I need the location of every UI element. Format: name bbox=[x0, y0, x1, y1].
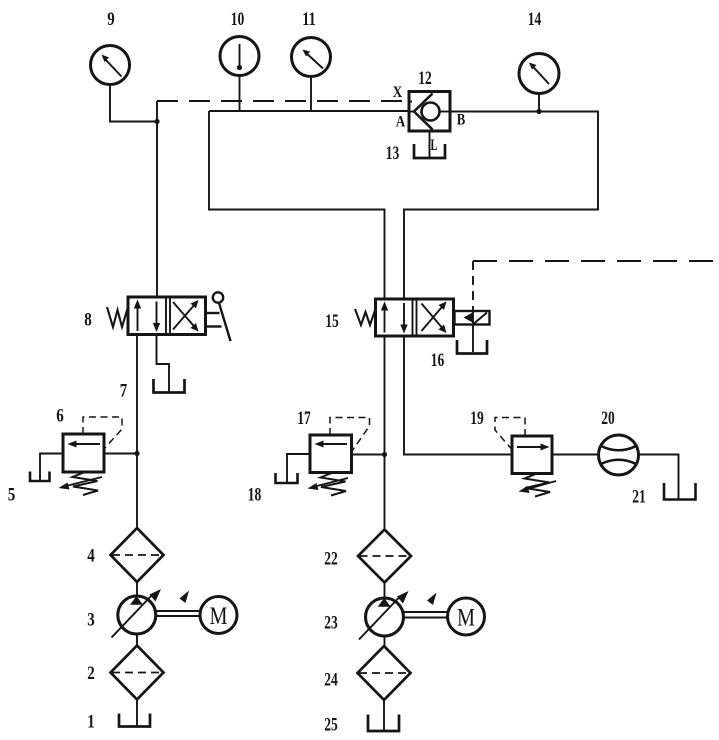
wire valve 15 P line down bbox=[384, 336, 386, 530]
wire solenoid drain bbox=[472, 325, 474, 353]
tank 1 bbox=[119, 714, 150, 727]
svg-text:7: 7 bbox=[120, 381, 128, 402]
svg-text:2: 2 bbox=[87, 663, 95, 684]
wire top run to valve 12 port A bbox=[209, 110, 409, 112]
svg-text:24: 24 bbox=[324, 670, 338, 691]
node junction relief17/P bbox=[382, 452, 387, 457]
relief valve 6 bbox=[63, 434, 104, 472]
wire flow meter to tank 21 bbox=[639, 455, 679, 500]
wire gauge 11 stem bbox=[310, 77, 312, 112]
svg-text:19: 19 bbox=[470, 408, 484, 429]
svg-text:10: 10 bbox=[231, 9, 245, 30]
motor M left bbox=[200, 597, 237, 634]
filter 24 bbox=[358, 646, 411, 700]
svg-text:X: X bbox=[393, 84, 403, 101]
gauge 11 bbox=[292, 38, 331, 77]
svg-text:25: 25 bbox=[324, 715, 338, 736]
valve 8 down arrow bbox=[153, 302, 160, 333]
node junction gauge9/pilot bbox=[154, 119, 159, 124]
gauge 14 bbox=[519, 54, 559, 94]
pump 23 bbox=[359, 591, 437, 640]
valve 8 spring bbox=[107, 307, 128, 327]
relief valve 19 bbox=[512, 436, 552, 474]
relief valve 17 bbox=[310, 435, 352, 473]
filter 4 bbox=[111, 528, 164, 582]
wire pilot X dashed line bbox=[157, 100, 409, 102]
svg-text:8: 8 bbox=[84, 310, 92, 331]
relief 6 pilot dashed bbox=[83, 417, 122, 449]
wire valve 8 P line down bbox=[136, 335, 138, 529]
tank 13 bbox=[414, 144, 445, 158]
wire gauge 9 to junction bbox=[110, 85, 157, 122]
gauge 9 bbox=[91, 46, 130, 85]
wire gauge 10 stem bbox=[239, 76, 241, 112]
wire valve 12 drain L bbox=[429, 131, 431, 157]
shaft pump 3 to motor bbox=[156, 611, 201, 616]
svg-text:16: 16 bbox=[431, 350, 445, 371]
svg-text:18: 18 bbox=[248, 485, 262, 506]
wire vertical to valve 8 port bbox=[156, 101, 158, 298]
svg-text:11: 11 bbox=[302, 9, 316, 30]
node junction gauge14/B-line bbox=[536, 109, 541, 114]
svg-text:13: 13 bbox=[386, 143, 400, 164]
tank 21 bbox=[664, 483, 696, 500]
motor M right bbox=[448, 598, 485, 635]
relief 17 adjust arrow bbox=[308, 478, 349, 490]
tank 25 bbox=[368, 715, 399, 732]
valve 15 crossed arrows bbox=[422, 302, 447, 334]
valve 15 spring bbox=[355, 309, 376, 325]
solenoid 16 bbox=[455, 311, 490, 325]
wire filter 24 to tank 25 bbox=[383, 700, 385, 731]
svg-text:22: 22 bbox=[324, 549, 338, 570]
svg-text:17: 17 bbox=[297, 408, 311, 429]
svg-text:4: 4 bbox=[87, 546, 95, 567]
wire relief 17 to tank 18 bbox=[287, 454, 310, 482]
svg-text:14: 14 bbox=[528, 9, 542, 30]
tank 5 bbox=[30, 472, 50, 482]
filter 2 bbox=[111, 646, 164, 700]
wire pump 3 to filter 2 bbox=[136, 635, 138, 646]
wire valve 15 tank line to relief 19 bbox=[404, 336, 512, 455]
wire solenoid pilot dashed bbox=[473, 261, 719, 311]
relief 19 spring bbox=[525, 474, 551, 497]
svg-text:A: A bbox=[396, 114, 406, 131]
valve 15 body bbox=[376, 299, 454, 336]
valve 8 manual lever bbox=[206, 292, 231, 341]
wire relief 6 to tank 5 bbox=[40, 454, 63, 481]
svg-text:L: L bbox=[431, 137, 438, 154]
wire valve 8 tank line bbox=[157, 335, 170, 392]
relief 17 spring bbox=[321, 473, 347, 496]
svg-text:M: M bbox=[210, 603, 228, 630]
relief 19 pilot dashed bbox=[495, 418, 525, 450]
svg-text:6: 6 bbox=[56, 406, 64, 427]
valve 8 up arrow bbox=[134, 300, 141, 332]
relief 17 pilot dashed bbox=[330, 418, 370, 452]
check valve U12 bbox=[409, 92, 450, 132]
wire gauge 14 stem bbox=[538, 94, 540, 112]
relief 6 spring bbox=[73, 472, 99, 495]
svg-text:9: 9 bbox=[107, 9, 115, 30]
flow meter 20 bbox=[599, 435, 639, 475]
svg-text:B: B bbox=[457, 112, 466, 129]
svg-text:21: 21 bbox=[632, 487, 646, 508]
tank below solenoid 16 bbox=[457, 340, 487, 354]
tank 18 bbox=[276, 473, 298, 483]
valve 8 body bbox=[128, 297, 206, 335]
svg-text:M: M bbox=[457, 605, 475, 632]
wire left L-run down to valve 15 left port bbox=[209, 111, 385, 299]
wire relief 19 to flow meter bbox=[552, 454, 599, 456]
tank below valve 8 bbox=[154, 379, 185, 393]
gauge 10 bbox=[220, 37, 259, 76]
valve 8 crossed arrows bbox=[173, 300, 199, 332]
svg-text:5: 5 bbox=[8, 485, 16, 506]
filter 22 bbox=[358, 530, 411, 583]
wire filter 2 to tank 1 bbox=[136, 700, 138, 727]
wire filter 4 to pump 3 bbox=[136, 582, 138, 597]
node junction relief6/P bbox=[134, 451, 139, 456]
shaft pump 23 to motor bbox=[403, 612, 448, 618]
wire filter 22 to pump 23 bbox=[384, 583, 386, 599]
pump 3 bbox=[112, 589, 190, 638]
svg-text:12: 12 bbox=[418, 68, 432, 89]
valve 15 down arrow bbox=[400, 303, 407, 334]
svg-text:3: 3 bbox=[87, 610, 95, 631]
relief 6 adjust arrow bbox=[59, 477, 103, 490]
valve 15 up arrow bbox=[381, 302, 388, 333]
svg-text:1: 1 bbox=[87, 712, 95, 733]
svg-text:20: 20 bbox=[601, 408, 615, 429]
relief 19 adjust arrow bbox=[519, 481, 557, 493]
svg-text:23: 23 bbox=[324, 613, 338, 634]
wire relief 17 to P line bbox=[352, 454, 385, 456]
wire valve 12 B to valve 15 right port bbox=[404, 112, 598, 300]
svg-text:15: 15 bbox=[325, 311, 339, 332]
wire relief 6 to P line bbox=[104, 453, 137, 455]
wire pump 23 to filter 24 bbox=[384, 637, 386, 647]
